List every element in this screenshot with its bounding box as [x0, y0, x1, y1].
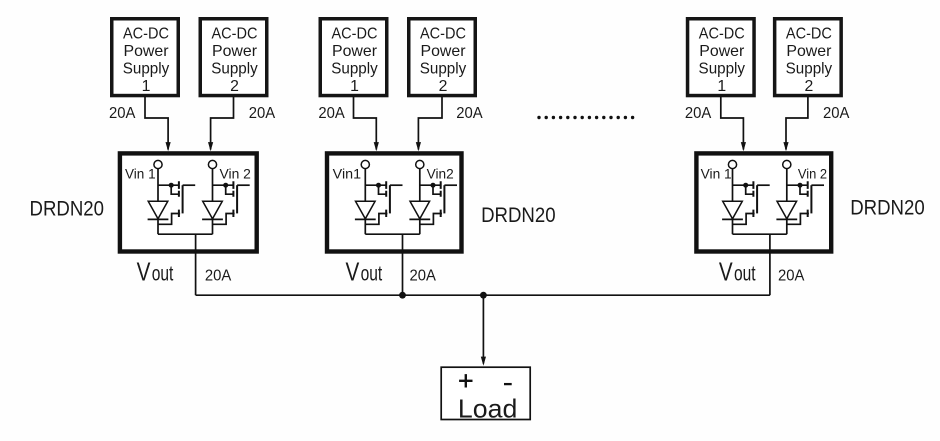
wire: PSU2 output to module Vin2 (group 1) — [211, 97, 234, 150]
svg-text:20A: 20A — [778, 267, 805, 284]
dotted continuation line — [539, 116, 633, 119]
input terminal circle Vin2 (module 3) — [783, 160, 791, 168]
DRDN20 module box (group 1) — [120, 153, 257, 251]
svg-text:Power: Power — [699, 43, 744, 60]
wire: module 3 inner output bus — [733, 233, 787, 235]
DRDN20 module box (group 3) — [696, 153, 831, 251]
svg-text:Supply: Supply — [331, 61, 378, 78]
AC-DC Power Supply 2 box (group 1) — [200, 19, 267, 96]
svg-text:20A: 20A — [410, 267, 437, 284]
wire: Vin2 (module 1) gate lead — [237, 184, 250, 186]
svg-text:Load: Load — [458, 395, 517, 423]
arrowhead into Vin2 (group 2) — [416, 142, 421, 151]
wire: module 2 inner output bus — [365, 233, 420, 235]
wire: Vin2 (module 1) diode cathode to module bus — [212, 219, 214, 234]
20A label PSU2 output (group 2) — [456, 105, 483, 122]
svg-text:Supply: Supply — [123, 61, 170, 78]
svg-text:2: 2 — [230, 78, 239, 95]
svg-text:1: 1 — [142, 78, 151, 95]
svg-text:Vin 1: Vin 1 — [701, 166, 732, 181]
arrowhead into Vin1 (group 1) — [166, 142, 171, 151]
20A label PSU1 output (group 3) — [685, 105, 712, 122]
svg-text:Power: Power — [332, 43, 377, 60]
wire: module 1 Vout drop to common bus — [195, 234, 197, 295]
svg-text:Power: Power — [124, 43, 169, 60]
wire: Vin2 (module 2) source hook — [420, 214, 442, 225]
wire: Vin1 (module 1) diode cathode to module bus — [157, 219, 159, 234]
+ terminal mark — [459, 374, 472, 387]
DRDN20 label (module 1, left) — [30, 197, 105, 220]
wire: Vin2 (module 1) drain branch — [213, 184, 234, 186]
transistor (MOSFET) Vin1 (module 3) channel bars — [752, 181, 754, 217]
wire: Vin1 (module 3) source hook — [733, 214, 755, 225]
AC-DC Power Supply 1 label (group 1) — [123, 25, 170, 95]
input terminal circle Vin2 (module 1) — [208, 160, 216, 168]
AC-DC Power Supply 2 box (group 3) — [775, 19, 842, 96]
Vout label (module 1) — [137, 256, 174, 286]
wire: Vin1 (module 3) drain branch — [733, 184, 754, 186]
svg-text:Supply: Supply — [699, 61, 746, 78]
transistor (MOSFET) Vin1 (module 2) channel bars — [385, 181, 387, 217]
wire: PSU2 output to module Vin2 (group 2) — [418, 97, 442, 150]
diode Vin2 (module 3) (body diode) — [776, 201, 797, 219]
Vin 1 label (module 2) — [333, 166, 361, 181]
wire: module 2 Vout drop to common bus — [402, 234, 404, 295]
Vout label (module 2) — [346, 256, 383, 286]
wire: Vin1 (module 1) gate lead — [183, 184, 196, 186]
load box — [441, 367, 530, 419]
Vin 2 label (module 2) — [427, 166, 454, 181]
wire: Vin1 (module 1) drain branch — [158, 184, 179, 186]
20A label PSU2 output (group 3) — [823, 105, 850, 122]
svg-text:V: V — [719, 256, 733, 286]
20A label PSU1 output (group 1) — [109, 105, 136, 122]
junction dot (load tap on bus) — [480, 292, 487, 299]
wire: Vin1 (module 2) input vertical to diode anode — [364, 169, 366, 202]
wire: Vin1 (module 3) body link — [746, 185, 754, 194]
20A label module 1 output — [205, 267, 232, 284]
svg-text:AC-DC: AC-DC — [786, 25, 832, 42]
transistor (MOSFET) Vin1 (module 3) gate plate — [756, 185, 758, 213]
svg-text:AC-DC: AC-DC — [699, 25, 745, 42]
diode Vin1 (module 1) (body diode) — [148, 201, 169, 219]
svg-text:AC-DC: AC-DC — [212, 25, 258, 42]
transistor (MOSFET) Vin1 (module 2) gate plate — [389, 185, 391, 213]
junction dot (Vin1 (module 2) drain node) — [376, 183, 381, 188]
transistor (MOSFET) Vin2 (module 3) channel bars — [807, 181, 809, 217]
svg-text:20A: 20A — [456, 105, 483, 122]
wire: load tap drop — [482, 295, 484, 363]
svg-text:20A: 20A — [318, 105, 345, 122]
svg-text:20A: 20A — [109, 105, 136, 122]
wire: Vin2 (module 2) input vertical to diode anode — [419, 169, 421, 202]
svg-text:V: V — [346, 256, 360, 286]
AC-DC Power Supply 1 label (group 3) — [699, 25, 746, 95]
AC-DC Power Supply 1 box (group 1) — [112, 19, 179, 96]
diode Vin2 (module 1) (body diode) — [202, 201, 223, 219]
junction dot (Vin1 (module 1) drain node) — [169, 183, 174, 188]
wire: Vin2 (module 3) body link — [800, 185, 808, 194]
wire: Vin1 (module 2) gate lead — [390, 184, 403, 186]
input terminal circle Vin1 (module 3) — [728, 160, 736, 168]
Vout label (module 3) — [719, 256, 756, 286]
diode Vin1 (module 2) (body diode) — [355, 201, 376, 219]
junction dot (Vin1 (module 3) drain node) — [743, 183, 748, 188]
diode Vin1 (module 3) (body diode) — [722, 201, 743, 219]
wire: Vin1 (module 1) input vertical to diode anode — [157, 169, 159, 202]
svg-text:Power: Power — [786, 43, 831, 60]
svg-text:AC-DC: AC-DC — [123, 25, 169, 42]
Vin 2 label (module 3) — [798, 166, 827, 181]
wire: Vin1 (module 1) source hook — [158, 214, 180, 225]
arrowhead into Vin1 (group 3) — [741, 142, 746, 151]
DRDN20 label (module 2, middle) — [481, 204, 555, 227]
- terminal mark — [504, 383, 512, 385]
svg-text:out: out — [361, 262, 383, 285]
diode Vin2 (module 2) (body diode) — [409, 201, 430, 219]
wire: Vin2 (module 3) input vertical to diode anode — [786, 169, 788, 202]
wire: Vin1 (module 3) gate lead — [757, 184, 770, 186]
transistor (MOSFET) Vin2 (module 1) channel bars — [232, 181, 234, 217]
arrowhead into load — [481, 357, 486, 366]
svg-text:Vin 2: Vin 2 — [798, 166, 827, 181]
svg-text:1: 1 — [350, 78, 359, 95]
wire: Vin2 (module 3) gate lead — [811, 184, 824, 186]
input terminal circle Vin2 (module 2) — [416, 160, 424, 168]
DRDN20 label (module 3, right) — [850, 196, 925, 219]
svg-text:Supply: Supply — [786, 61, 833, 78]
wire: PSU2 output to module Vin2 (group 3) — [786, 97, 808, 150]
wire: PSU1 output to module Vin1 (group 2) — [354, 97, 377, 150]
svg-text:DRDN20: DRDN20 — [30, 197, 105, 220]
junction dot (Vin2 (module 1) drain node) — [223, 183, 228, 188]
20A label module 3 output — [778, 267, 805, 284]
transistor (MOSFET) Vin2 (module 2) gate plate — [443, 185, 445, 213]
Vin 1 label (module 3) — [701, 166, 732, 181]
wire: Vin2 (module 3) source hook — [787, 214, 809, 225]
svg-text:1: 1 — [717, 78, 726, 95]
svg-text:DRDN20: DRDN20 — [481, 204, 555, 227]
svg-text:Supply: Supply — [420, 61, 467, 78]
svg-text:DRDN20: DRDN20 — [850, 196, 925, 219]
wire: module 1 inner output bus — [158, 233, 213, 235]
arrowhead into Vin2 (group 1) — [208, 142, 213, 151]
AC-DC Power Supply 2 label (group 3) — [786, 25, 833, 95]
wire: Vin2 (module 1) body link — [226, 185, 234, 194]
wire: Vin2 (module 1) source hook — [213, 214, 235, 225]
wire: Vin2 (module 3) drain branch — [787, 184, 808, 186]
svg-text:Power: Power — [212, 43, 257, 60]
junction dot (module 2 output on bus) — [399, 292, 406, 299]
transistor (MOSFET) Vin2 (module 3) gate plate — [810, 185, 812, 213]
DRDN20 module box (group 2) — [327, 153, 462, 251]
AC-DC Power Supply 2 label (group 2) — [420, 25, 467, 95]
svg-text:2: 2 — [805, 78, 814, 95]
AC-DC Power Supply 1 box (group 3) — [688, 19, 755, 96]
transistor (MOSFET) Vin2 (module 2) channel bars — [440, 181, 442, 217]
svg-text:20A: 20A — [249, 105, 276, 122]
arrowhead into Vin2 (group 3) — [783, 142, 788, 151]
transistor (MOSFET) Vin1 (module 1) channel bars — [178, 181, 180, 217]
transistor (MOSFET) Vin2 (module 1) gate plate — [236, 185, 238, 213]
svg-text:out: out — [734, 262, 756, 285]
transistor (MOSFET) Vin1 (module 1) gate plate — [182, 185, 184, 213]
wire: PSU1 output to module Vin1 (group 3) — [721, 97, 744, 150]
Vin 2 label (module 1) — [220, 166, 251, 181]
Load label — [458, 395, 517, 423]
input terminal circle Vin1 (module 1) — [154, 160, 162, 168]
wire: module 3 Vout drop to common bus — [769, 234, 771, 295]
svg-text:Vin1: Vin1 — [333, 166, 361, 181]
svg-text:Vin2: Vin2 — [427, 166, 454, 181]
wire: Vin1 (module 1) body link — [171, 185, 179, 194]
wire: Vin1 (module 3) diode cathode to module bus — [732, 219, 734, 234]
AC-DC Power Supply 2 label (group 1) — [211, 25, 258, 95]
wire: PSU1 output to module Vin1 (group 1) — [145, 97, 168, 150]
AC-DC Power Supply 1 label (group 2) — [331, 25, 378, 95]
wire: common Vout bus — [196, 294, 770, 296]
AC-DC Power Supply 2 box (group 2) — [409, 19, 476, 96]
svg-text:Vin 1: Vin 1 — [125, 166, 156, 181]
junction dot (Vin2 (module 3) drain node) — [798, 183, 803, 188]
Vin 1 label (module 1) — [125, 166, 156, 181]
wire: Vin2 (module 3) diode cathode to module bus — [786, 219, 788, 234]
svg-text:20A: 20A — [685, 105, 712, 122]
svg-text:Power: Power — [421, 43, 466, 60]
svg-text:2: 2 — [439, 78, 448, 95]
wire: Vin2 (module 2) drain branch — [420, 184, 441, 186]
wire: Vin1 (module 3) input vertical to diode anode — [732, 169, 734, 202]
wire: Vin1 (module 2) body link — [379, 185, 387, 194]
20A label module 2 output — [410, 267, 437, 284]
wire: Vin2 (module 2) gate lead — [444, 184, 457, 186]
svg-text:V: V — [137, 256, 151, 286]
20A label PSU1 output (group 2) — [318, 105, 345, 122]
input terminal circle Vin1 (module 2) — [361, 160, 369, 168]
wire: Vin1 (module 2) diode cathode to module bus — [364, 219, 366, 234]
AC-DC Power Supply 1 box (group 2) — [320, 19, 387, 96]
20A label PSU2 output (group 1) — [249, 105, 276, 122]
wire: Vin1 (module 2) source hook — [365, 214, 387, 225]
wire: Vin2 (module 2) body link — [433, 185, 441, 194]
wire: Vin2 (module 2) diode cathode to module bus — [419, 219, 421, 234]
arrowhead into Vin1 (group 2) — [374, 142, 379, 151]
svg-text:20A: 20A — [205, 267, 232, 284]
wire: Vin2 (module 1) input vertical to diode anode — [212, 169, 214, 202]
junction dot (Vin2 (module 2) drain node) — [431, 183, 436, 188]
svg-text:AC-DC: AC-DC — [332, 25, 378, 42]
wire: Vin1 (module 2) drain branch — [365, 184, 386, 186]
svg-text:AC-DC: AC-DC — [420, 25, 466, 42]
svg-text:Supply: Supply — [211, 61, 258, 78]
svg-text:out: out — [152, 262, 174, 285]
svg-text:20A: 20A — [823, 105, 850, 122]
svg-text:Vin 2: Vin 2 — [220, 166, 251, 181]
